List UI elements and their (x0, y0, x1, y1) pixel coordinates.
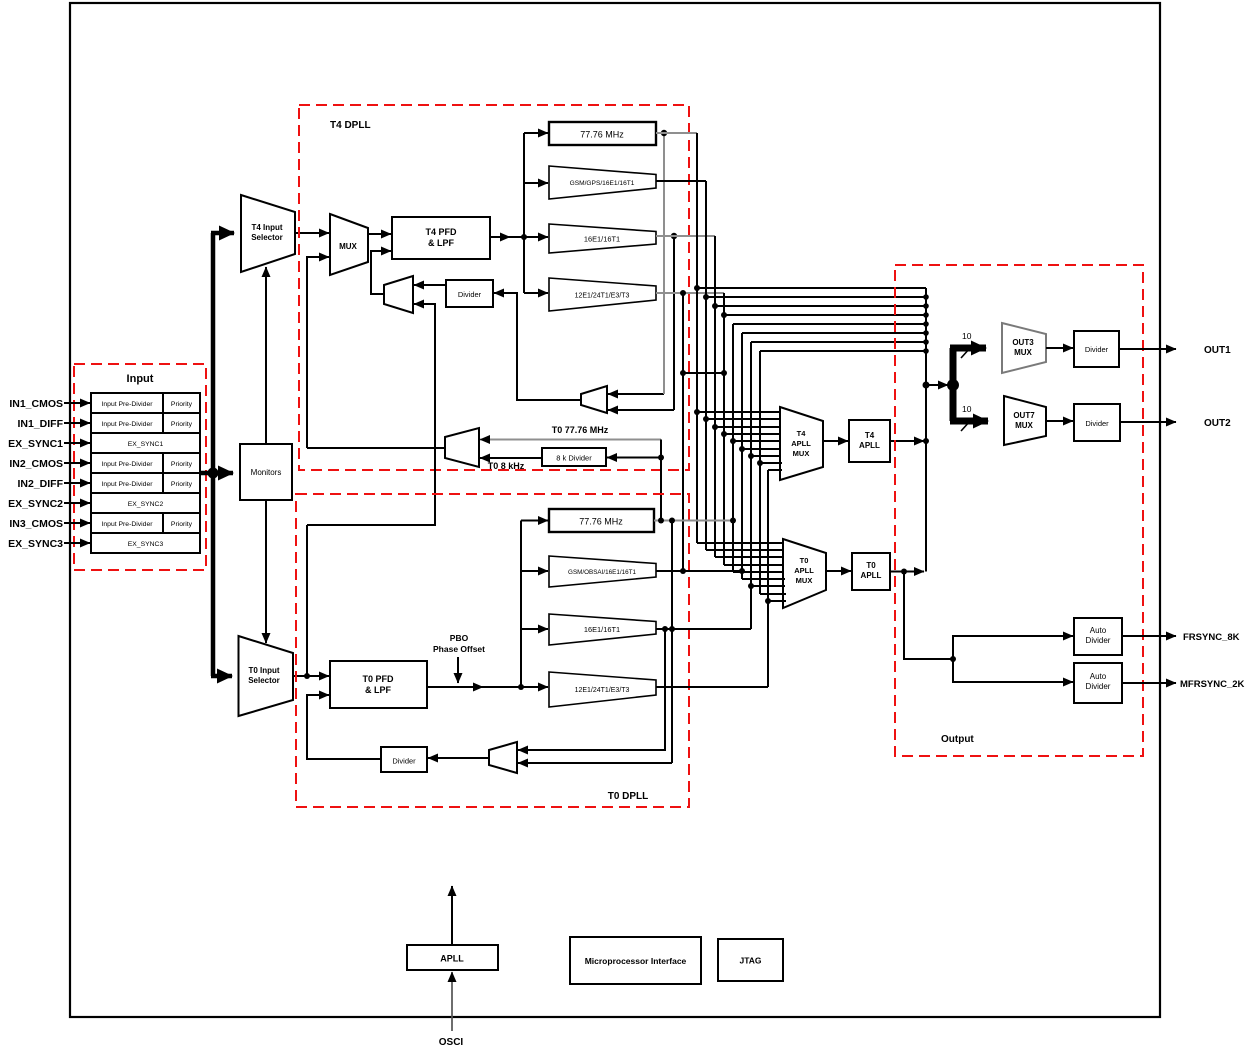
wire T0 selector signal up (306, 525, 308, 676)
svg-text:T0: T0 (800, 556, 809, 565)
wire T4 APLL output joins stack (890, 440, 924, 442)
svg-text:T4: T4 (865, 431, 875, 440)
svg-text:APLL: APLL (794, 566, 814, 575)
top bundle horizontal 2 (706, 296, 926, 298)
svg-text:MUX: MUX (1015, 421, 1033, 430)
svg-text:12E1/24T1/E3/T3: 12E1/24T1/E3/T3 (575, 687, 630, 694)
wire to T0 GSM divider (521, 570, 548, 572)
svg-text:Priority: Priority (171, 421, 193, 428)
svg-text:APLL: APLL (791, 439, 811, 448)
mux T0 APLL MUX (783, 539, 826, 608)
wire OUT7 MUX to divider (1046, 420, 1073, 422)
mux T0-77.76 select mux C (445, 428, 479, 467)
Monitors box (240, 444, 292, 500)
nodes top bundle taps (694, 285, 700, 291)
thick bus: table to monitors (200, 471, 233, 476)
wire T0 16E1 fb into fbD top input (518, 629, 665, 750)
wire to auto divider 1 (953, 636, 1073, 659)
right stack vertical (925, 288, 927, 572)
T4 APLL box (849, 420, 890, 462)
svg-text:Divider: Divider (1086, 682, 1111, 691)
bundle vertical 6 (741, 333, 743, 579)
svg-text:OUT1: OUT1 (1204, 345, 1231, 356)
svg-text:IN1_DIFF: IN1_DIFF (17, 418, 63, 430)
wire to T4 77.76MHz divider (524, 132, 548, 134)
svg-text:Input Pre-Divider: Input Pre-Divider (102, 481, 154, 488)
wire T0 12E1 output row (656, 686, 768, 688)
bus slash (top) (961, 347, 971, 358)
svg-text:JTAG: JTAG (739, 956, 761, 966)
svg-text:Priority: Priority (171, 401, 193, 408)
wire IN2_CMOS arrow (64, 462, 90, 464)
bundle vertical 5 (732, 324, 734, 572)
wire EX_SYNC3 arrow (64, 542, 90, 544)
node x664 at 77.76 row (661, 130, 667, 136)
node auto divider branch (950, 656, 956, 662)
svg-text:12E1/24T1/E3/T3: 12E1/24T1/E3/T3 (575, 293, 630, 300)
nodes T0 16E1 row (669, 626, 675, 632)
wire T4 Divider to fbA top input (414, 284, 446, 286)
wire fbB to T4 Divider input (494, 293, 581, 400)
thick bus branch to T4 input selector (211, 231, 234, 236)
wire T0 APLL MUX to T0 APLL (826, 570, 851, 572)
svg-text:& LPF: & LPF (365, 685, 392, 695)
Input section dashed box (74, 364, 206, 570)
svg-text:T4 PFD: T4 PFD (425, 227, 457, 237)
svg-text:MFRSYNC_2K: MFRSYNC_2K (1180, 679, 1245, 690)
8 k Divider box (542, 448, 606, 466)
wire T4 16E1 output row (656, 235, 715, 237)
Microprocessor Interface box (570, 937, 701, 984)
svg-text:8 k Divider: 8 k Divider (556, 454, 592, 463)
Divider box (T4) (446, 280, 493, 307)
node: T0 selector output junction (304, 673, 310, 679)
svg-text:MUX: MUX (796, 576, 813, 585)
wire fbD output to T0 Divider (428, 757, 489, 759)
svg-text:T4: T4 (797, 429, 807, 438)
top bundle horizontal 6 (742, 332, 926, 334)
wire T0 distribution vertical (520, 521, 522, 688)
wire T0 APLL output joins stack (890, 571, 924, 573)
node spur taps (680, 290, 686, 296)
wire T0 ref into MUX lower input (307, 257, 329, 448)
bundle vertical 9 (767, 470, 769, 687)
wire monitors down to T0 selector (265, 500, 267, 643)
svg-text:Selector: Selector (251, 233, 283, 242)
divider block 12E1/24T1/E3/T3 (T0) (549, 672, 656, 707)
node stack-to-bus (923, 382, 930, 389)
svg-text:T0: T0 (866, 561, 876, 570)
wire right stack into output bus (926, 384, 948, 386)
wire spur cross-link y373 (683, 372, 724, 374)
wire T0 16E1 output row (656, 628, 751, 630)
svg-text:Input Pre-Divider: Input Pre-Divider (102, 401, 154, 408)
bundle vertical 7 (750, 342, 752, 629)
wire fbA output to T4 PFD lower input (371, 251, 391, 294)
wire 8k divider to mux C bottom (480, 457, 542, 459)
wire OUT2 (1120, 421, 1176, 423)
mux OUT7 MUX (1004, 396, 1046, 445)
svg-text:MUX: MUX (793, 449, 810, 458)
svg-text:PBO: PBO (450, 633, 469, 643)
Auto Divider box (MFRSYNC) (1074, 663, 1122, 703)
wire T0 77.76 MHz into mux C top (480, 439, 661, 441)
wire T4 selector to MUX (295, 232, 329, 234)
svg-text:IN2_DIFF: IN2_DIFF (17, 478, 63, 490)
node T0 distribution (518, 684, 524, 690)
svg-text:GSM/OBSAI/16E1/16T1: GSM/OBSAI/16E1/16T1 (568, 569, 636, 576)
T0 Input Selector (239, 636, 294, 716)
node fbD top tap (662, 626, 668, 632)
divider block 12E1/24T1/E3/T3 (T4) (549, 278, 656, 311)
svg-text:Input Pre-Divider: Input Pre-Divider (102, 461, 154, 468)
top bundle horizontal 1 (697, 287, 926, 289)
thick bus branch to T0 input selector (211, 674, 232, 679)
svg-text:EX_SYNC1: EX_SYNC1 (128, 441, 164, 448)
T4 PFD & LPF box (392, 217, 490, 259)
thick bus branch to OUT7 MUX (950, 418, 988, 425)
wire T0 77.76 output row (654, 520, 733, 522)
wire IN2_DIFF arrow (64, 482, 90, 484)
wire T4 APLL MUX to T4 APLL (823, 440, 848, 442)
svg-text:EX_SYNC1: EX_SYNC1 (8, 438, 63, 450)
nodes T4 APLL MUX staircase (694, 409, 700, 415)
divider block GSM/OBSAI/16E1/16T1 (T0) (549, 556, 656, 587)
svg-text:Auto: Auto (1090, 626, 1107, 635)
svg-text:Input Pre-Divider: Input Pre-Divider (102, 421, 154, 428)
wire MUX to T4 PFD (368, 233, 391, 235)
node T0 APLL branch (901, 569, 907, 575)
bundle vertical 4 (723, 293, 725, 565)
svg-text:Output: Output (941, 734, 974, 745)
wire to T0 16E1 divider (521, 628, 548, 630)
svg-text:Divider: Divider (458, 290, 482, 299)
T4 APLL MUX input wires (697, 412, 782, 470)
divider block 16E1/16T1 (T4) (549, 224, 656, 253)
svg-text:Selector: Selector (248, 676, 280, 685)
svg-text:Priority: Priority (171, 521, 193, 528)
wire FRSYNC_8K (1122, 635, 1176, 637)
T4 DPLL dashed box (299, 105, 689, 470)
bus slash (bottom) (961, 420, 971, 431)
thick output bus vertical (950, 348, 957, 421)
wire T4 PFD output to dividers (490, 236, 510, 238)
svg-text:Auto: Auto (1090, 672, 1107, 681)
wire 77.76 fb down to fbB top input (608, 393, 664, 395)
svg-text:T0 Input: T0 Input (248, 666, 279, 675)
mux T0 feedback mux D (489, 742, 517, 773)
wire riser x672 (T0 77.76 row to 16E1 row) (671, 521, 673, 764)
svg-text:Microprocessor Interface: Microprocessor Interface (585, 956, 687, 966)
wire to T4 GSM divider (524, 182, 548, 184)
svg-text:OSCI: OSCI (439, 1037, 464, 1048)
nodes T0 APLL MUX taps (748, 583, 754, 589)
gray feedback vertical x664 (663, 133, 665, 394)
svg-text:EX_SYNC3: EX_SYNC3 (128, 541, 164, 548)
wire MFRSYNC_2K (1122, 682, 1176, 684)
svg-text:EX_SYNC2: EX_SYNC2 (8, 498, 63, 510)
divider block 77.76 MHz (T0) (549, 509, 654, 532)
svg-text:IN1_CMOS: IN1_CMOS (9, 398, 63, 410)
thick bus vertical (211, 233, 216, 676)
svg-text:Priority: Priority (171, 461, 193, 468)
svg-text:T4 DPLL: T4 DPLL (330, 120, 371, 131)
wire T0 path to fbA bottom input (307, 304, 435, 525)
wire T4 distribution vertical (523, 133, 525, 293)
svg-text:GSM/GPS/16E1/16T1: GSM/GPS/16E1/16T1 (570, 180, 635, 187)
bundle vertical 1 (696, 133, 698, 543)
Divider box (OUT2) (1074, 404, 1120, 441)
svg-text:16E1/16T1: 16E1/16T1 (584, 625, 620, 634)
T0 DPLL dashed box (296, 494, 689, 807)
wire T0 GSM output row (656, 570, 742, 572)
Output section dashed box (895, 265, 1143, 756)
svg-text:Divider: Divider (1085, 345, 1109, 354)
bundle vertical 3 (714, 236, 716, 557)
svg-text:Divider: Divider (1086, 636, 1111, 645)
svg-text:FRSYNC_8K: FRSYNC_8K (1183, 632, 1240, 643)
wire T0 APLL to auto dividers (904, 572, 953, 660)
svg-text:EX_SYNC2: EX_SYNC2 (128, 501, 164, 508)
bundle vertical 8 (759, 351, 761, 594)
svg-text:T0 8 kHz: T0 8 kHz (488, 461, 525, 471)
node x664 8k tap (658, 455, 664, 461)
wire T4 GSM output row (656, 180, 706, 182)
APLL box (407, 945, 498, 970)
mux T4 feedback mux A (384, 276, 413, 313)
svg-text:& LPF: & LPF (428, 238, 455, 248)
wire PBO arrow down (457, 657, 459, 683)
wire x664 into 8k divider (607, 457, 661, 459)
gray feedback vertical x674 (673, 236, 675, 410)
mux OUT3 MUX (1002, 323, 1046, 373)
wire IN3_CMOS arrow (64, 522, 90, 524)
svg-text:Phase Offset: Phase Offset (433, 644, 485, 654)
svg-text:MUX: MUX (339, 242, 357, 251)
wire T0 PFD output (427, 686, 483, 688)
svg-text:Divider: Divider (392, 757, 416, 766)
top bundle horizontal 3 (715, 305, 926, 307)
T4 Input Selector (241, 195, 295, 272)
wire to T4 12E1 divider (524, 292, 548, 294)
bundle vertical 2 (705, 181, 707, 550)
svg-text:T4 Input: T4 Input (251, 223, 282, 232)
wire OSCI into APLL (451, 972, 453, 1031)
wire T0 77.76 riser (660, 440, 662, 521)
svg-text:77.76 MHz: 77.76 MHz (579, 517, 623, 527)
node T4 PFD distribution (521, 234, 527, 240)
nodes right stack (923, 294, 929, 300)
input pre-divider / priority table (91, 393, 200, 553)
wire T0 selector to T0 PFD (293, 675, 329, 677)
mux MUX (T4 reference mux) (330, 214, 368, 275)
top bundle horizontal 5 (733, 323, 926, 325)
wire 16E1 fb down to fbB bottom input (608, 409, 674, 411)
wire monitors up to T4 selector (265, 267, 267, 444)
JTAG box (718, 939, 783, 981)
nodes T0 77.76 row (658, 518, 664, 524)
svg-text:Monitors: Monitors (251, 468, 282, 477)
mux T4 feedback mux B (581, 386, 607, 413)
divider block 77.76 MHz (T4) (549, 122, 656, 145)
top bundle horizontal 4 (724, 314, 926, 316)
svg-text:EX_SYNC3: EX_SYNC3 (8, 538, 63, 550)
svg-text:APLL: APLL (861, 571, 882, 580)
node x674 at 16E1 row (671, 233, 677, 239)
svg-text:T0 PFD: T0 PFD (362, 674, 394, 684)
table row texts (102, 401, 193, 548)
T0 PFD & LPF box (330, 661, 427, 708)
wire T0 divider feedback into T0 PFD lower input (307, 695, 381, 759)
wire T4 77.76 output row (656, 132, 697, 134)
Divider box (OUT1) (1074, 331, 1119, 367)
wire IN1_CMOS arrow (64, 402, 90, 404)
wire T4 12E1 output row (656, 292, 724, 294)
divider block 16E1/16T1 (T0) (549, 614, 656, 645)
svg-text:OUT3: OUT3 (1012, 338, 1034, 347)
svg-text:Input: Input (127, 373, 154, 385)
svg-text:OUT7: OUT7 (1013, 411, 1035, 420)
svg-text:10: 10 (962, 331, 972, 341)
svg-text:MUX: MUX (1014, 348, 1032, 357)
svg-text:T0 DPLL: T0 DPLL (608, 791, 649, 802)
node T0 GSM tap (739, 568, 745, 574)
wire T4 12E1 spur vertical (682, 293, 684, 571)
svg-text:T0 77.76 MHz: T0 77.76 MHz (552, 425, 609, 435)
divider block GSM/GPS/16E1/16T1 (T4) (549, 166, 656, 199)
Divider box (T0) (381, 747, 427, 772)
svg-text:16E1/16T1: 16E1/16T1 (584, 235, 620, 244)
top bundle horizontal 7 (751, 341, 926, 343)
thick bus branch to OUT3 MUX (950, 345, 986, 352)
svg-text:OUT2: OUT2 (1204, 418, 1231, 429)
Auto Divider box (FRSYNC) (1074, 618, 1122, 655)
wire OUT3 MUX to divider (1046, 347, 1073, 349)
wire EX_SYNC2 arrow (64, 502, 90, 504)
svg-text:Divider: Divider (1085, 419, 1109, 428)
top bundle horizontal 8 (760, 350, 926, 352)
node T4 APLL join (923, 438, 929, 444)
svg-text:IN2_CMOS: IN2_CMOS (9, 458, 63, 470)
wire into fbD bottom input (518, 762, 672, 764)
svg-text:IN3_CMOS: IN3_CMOS (9, 518, 63, 530)
svg-text:Input Pre-Divider: Input Pre-Divider (102, 521, 154, 528)
T0 APLL MUX input wires (697, 543, 786, 601)
svg-text:10: 10 (962, 404, 972, 414)
svg-text:APLL: APLL (859, 441, 880, 450)
svg-text:APLL: APLL (440, 954, 464, 964)
node thick bus junction (947, 379, 959, 391)
T0 APLL box (852, 553, 890, 590)
wire IN1_DIFF arrow (64, 422, 90, 424)
svg-text:77.76 MHz: 77.76 MHz (580, 130, 624, 140)
wire to T0 77.76 divider (521, 520, 548, 522)
wire OUT1 (1119, 348, 1176, 350)
svg-text:Priority: Priority (171, 481, 193, 488)
wire mux C output to MUX (307, 447, 445, 449)
wire APLL output up (451, 886, 453, 945)
thick bus junction dot (208, 468, 219, 479)
wire EX_SYNC1 arrow (64, 442, 90, 444)
mux T4 APLL MUX (780, 407, 823, 480)
wire to auto divider 2 (953, 659, 1073, 682)
